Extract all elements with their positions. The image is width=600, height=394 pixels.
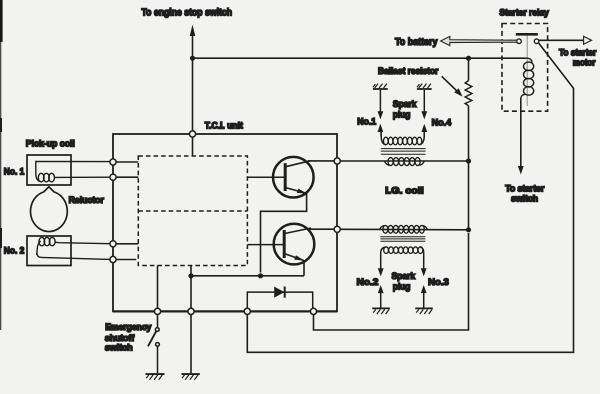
- arrow up to engine stop switch: [190, 25, 196, 36]
- junction dot: return joins ground leg: [188, 273, 193, 278]
- svg-text:Reluctor: Reluctor: [69, 195, 105, 205]
- svg-text:To engine stop switch: To engine stop switch: [142, 7, 233, 18]
- svg-text:To starter: To starter: [505, 183, 545, 193]
- wire: relay to starter motor: [539, 39, 584, 41]
- arrow: to starter motor (open head): [584, 36, 592, 44]
- svg-text:No.4: No.4: [432, 117, 452, 127]
- diode D1: [247, 287, 312, 312]
- ignition coil No.2-3 primary winding: [380, 225, 428, 233]
- node: TCI right terminal upper: [334, 158, 340, 164]
- spark plug No.3 gap: [421, 268, 427, 308]
- T.C.I. unit box: [113, 134, 337, 311]
- svg-text:No.2: No.2: [357, 277, 379, 287]
- wire: node lower2 to circuit block: [116, 259, 136, 261]
- wire: Q1 collector to TCI right terminal: [308, 160, 334, 162]
- arrow: to battery (open shaft): [441, 36, 517, 45]
- node: diode anode on TCI bottom edge: [244, 308, 250, 314]
- TCI inner circuit block (dashed): [138, 156, 247, 266]
- ignition coil No.1-4 primary winding: [385, 158, 425, 166]
- scan artifact left edge: [0, 0, 3, 330]
- spark plug No.4 gap: [421, 90, 427, 137]
- wire: node lower1 to circuit block: [116, 176, 138, 178]
- node: TCI top terminal: [189, 131, 195, 137]
- svg-text:plug: plug: [393, 110, 411, 121]
- label: To starter motor: [559, 47, 597, 67]
- wire: outer frame to starter relay contact: [247, 43, 573, 352]
- svg-text:shutoff: shutoff: [105, 333, 135, 343]
- pick-up coil No.2 winding: [37, 237, 110, 259]
- node: TCI right terminal lower: [334, 226, 340, 232]
- svg-text:Pick-up coil: Pick-up coil: [26, 139, 75, 149]
- junction dot: IG coil No.2-3 primary to ballast line: [466, 227, 471, 232]
- ground below spark plug No.2: [372, 308, 390, 314]
- wire: circuit block to ground leg vertical: [190, 266, 192, 374]
- ignition coil No.1-4 primary wire: [340, 160, 468, 162]
- svg-text:No. 1: No. 1: [4, 166, 25, 176]
- pick-up coil No.2 box: [27, 236, 71, 266]
- junction dot: Q1 emitter joins return: [258, 273, 263, 278]
- wire: relay coil to starter switch: [520, 98, 522, 166]
- wire: Q1 emitter return: [261, 193, 307, 273]
- spark plug No.2 gap: [378, 268, 384, 308]
- svg-text:Ballast resistor: Ballast resistor: [378, 66, 439, 76]
- svg-text:Emergency: Emergency: [105, 322, 152, 332]
- svg-text:I.G. coil: I.G. coil: [385, 185, 423, 195]
- pointer arrow to ballast resistor: [442, 76, 463, 96]
- wire: emergency switch leg from circuit block: [157, 266, 159, 328]
- node: pick-up No.2 terminal upper: [110, 241, 116, 247]
- starter relay box (dashed): [502, 24, 548, 112]
- svg-text:motor: motor: [573, 58, 596, 68]
- dashed divider inside circuit block: [138, 210, 247, 212]
- wire: top supply bus to starter relay coil: [193, 57, 528, 59]
- ignition coil No.2-3 secondary winding: [381, 247, 424, 271]
- ground symbol under TCI: [182, 374, 200, 380]
- svg-text:No.3: No.3: [428, 277, 449, 287]
- label: To starter switch: [505, 183, 545, 203]
- label: Spark plug (bottom): [392, 271, 416, 293]
- wire: Q2 collector to TCI right terminal: [308, 228, 334, 230]
- transistor Q2: [248, 224, 315, 265]
- svg-text:To starter: To starter: [559, 47, 597, 57]
- wire: Q2 emitter down: [303, 260, 305, 276]
- wire: node upper2 to circuit block: [116, 243, 138, 245]
- ground below spark plug No.3: [415, 308, 433, 314]
- reluctor: [30, 187, 67, 232]
- wire: node upper1 to circuit block: [116, 161, 138, 163]
- svg-text:Starter relay: Starter relay: [499, 8, 549, 18]
- ignition coil No.1-4 secondary winding: [381, 130, 424, 145]
- svg-text:plug: plug: [393, 282, 411, 293]
- relay armature core line: [526, 36, 528, 107]
- wire: TCI top terminal into circuit block: [192, 137, 194, 156]
- node: pick-up No.1 terminal lower: [110, 174, 116, 180]
- ground symbol under emergency switch: [146, 374, 165, 380]
- junction dot: IG coil No.1-4 primary to ballast line: [466, 158, 471, 163]
- label: Spark plug (top): [393, 99, 417, 121]
- relay contact bar: [516, 33, 538, 36]
- svg-text:T.C.I. unit: T.C.I. unit: [205, 121, 243, 131]
- node: pick-up No.2 terminal lower: [110, 256, 116, 262]
- arrow down to starter switch: [518, 166, 524, 175]
- ignition coil No.2-3 primary wire: [340, 228, 468, 231]
- relay coil winding: [521, 58, 534, 98]
- wire: inner return frame to ballast line: [314, 233, 469, 330]
- ground above spark plug No.4: [417, 84, 432, 89]
- label: Emergency shutoff switch: [105, 322, 152, 352]
- svg-text:switch: switch: [511, 194, 538, 204]
- node: pick-up No.1 terminal upper: [110, 159, 116, 165]
- pick-up coil No.1 box: [27, 155, 71, 185]
- svg-text:Spark: Spark: [393, 99, 417, 110]
- ignition coil No.2-3 core: [380, 237, 425, 242]
- ground above spark plug No.1: [373, 84, 388, 89]
- node: diode cathode on TCI bottom edge: [310, 308, 316, 314]
- junction dot B (ballast resistor tap): [466, 56, 471, 61]
- node: ground leg on TCI bottom edge: [188, 308, 194, 314]
- ignition coil No.1-4 core: [381, 149, 426, 155]
- ballast resistor R1: [465, 58, 472, 161]
- node: emergency leg on TCI bottom edge: [154, 308, 160, 314]
- relay contact left: [517, 39, 522, 44]
- junction dot A (engine stop / supply bus): [190, 56, 195, 61]
- emergency shutoff switch: [148, 328, 159, 374]
- transistor Q1: [247, 157, 313, 198]
- svg-text:switch: switch: [105, 343, 133, 353]
- wire: ballast line mid section: [468, 161, 470, 230]
- wire: engine stop vertical: [192, 33, 194, 134]
- relay contact right: [534, 39, 539, 44]
- svg-text:Spark: Spark: [392, 271, 416, 282]
- spark plug No.1 gap: [378, 90, 384, 137]
- pick-up coil No.1 winding: [36, 161, 110, 182]
- wire: emitter common return to ground leg: [191, 275, 304, 277]
- svg-text:No. 2: No. 2: [4, 246, 25, 256]
- svg-text:To battery: To battery: [395, 37, 438, 48]
- svg-text:No.1: No.1: [357, 117, 376, 127]
